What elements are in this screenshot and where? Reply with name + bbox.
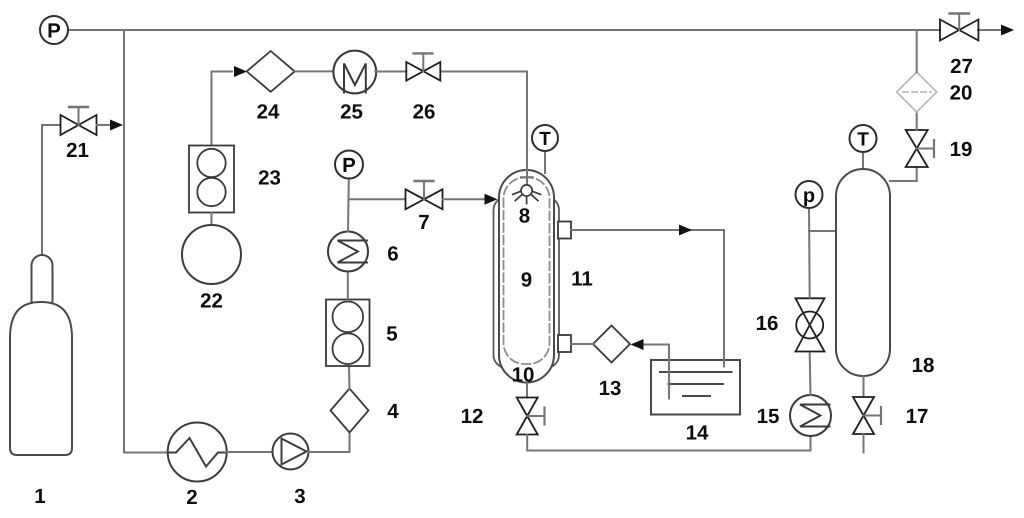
- wire meter 25 to valve 26: [375, 71, 406, 73]
- svg-text:7: 7: [418, 211, 429, 234]
- svg-text:T: T: [539, 129, 551, 150]
- filter 4 diamond: [331, 389, 369, 433]
- arrow into vessel 9: [485, 194, 498, 205]
- nozzle 8 flange tick: [521, 176, 533, 178]
- wire pump 3 to filter 4: [309, 433, 350, 453]
- svg-text:14: 14: [686, 422, 709, 445]
- svg-text:22: 22: [200, 290, 223, 313]
- node junction left (x=124): [123, 30, 125, 453]
- svg-text:20: 20: [950, 82, 973, 105]
- wire valve 26 down to nozzle 8: [441, 72, 527, 186]
- flow meter 25: [333, 51, 376, 94]
- valve 12: [517, 398, 545, 435]
- wire from valve 27 to outlet arrow: [978, 29, 1008, 31]
- wire valve 17 vent: [863, 434, 865, 453]
- svg-text:2: 2: [186, 486, 197, 509]
- gauge p3: [796, 181, 823, 208]
- valve 19: [906, 130, 934, 167]
- svg-text:15: 15: [757, 405, 780, 428]
- port 11 upper: [558, 222, 571, 239]
- wire valve 12 to heater 15 bottom line: [527, 435, 810, 451]
- vessel 9 jacket: [494, 197, 560, 368]
- valve 7: [406, 181, 443, 209]
- svg-text:24: 24: [257, 101, 280, 124]
- svg-text:4: 4: [387, 400, 399, 423]
- filter 20 (light): [897, 72, 937, 112]
- conditioner 23: [189, 146, 234, 213]
- wire filter 24 to meter 25: [295, 70, 333, 72]
- gas cylinder 1: [10, 255, 72, 455]
- svg-text:8: 8: [519, 205, 530, 228]
- valve 26: [406, 53, 440, 80]
- svg-text:1: 1: [34, 485, 45, 508]
- svg-text:10: 10: [512, 364, 535, 387]
- svg-text:11: 11: [571, 268, 593, 291]
- filter 24 diamond: [247, 51, 295, 92]
- wire bottom left to heat exchanger 2: [124, 452, 169, 454]
- wire valve 16 to gauge p3: [808, 208, 811, 298]
- svg-text:21: 21: [66, 139, 89, 162]
- valve 17: [853, 397, 881, 434]
- wire cylinder to valve 21: [42, 125, 61, 255]
- arrow on wire to tank: [679, 225, 692, 236]
- nozzle 8: [513, 185, 541, 204]
- svg-text:23: 23: [258, 167, 281, 190]
- port 11 lower: [558, 335, 571, 352]
- svg-text:25: 25: [340, 101, 363, 124]
- heat exchanger 2: [168, 423, 227, 482]
- svg-text:13: 13: [599, 377, 622, 400]
- wire junction to valve 7: [349, 198, 406, 200]
- svg-text:5: 5: [386, 323, 397, 346]
- wire vessel 18 to valve 19: [890, 167, 917, 181]
- svg-text:18: 18: [912, 354, 935, 377]
- svg-text:P: P: [342, 154, 356, 177]
- wire vessel 18 bottom to valve 17: [863, 376, 865, 397]
- wire conditioner 23 to balance 22: [211, 213, 213, 227]
- arrow into filter 13: [631, 339, 644, 350]
- svg-text:p: p: [803, 185, 815, 207]
- wire vessel 9 bottom to valve 12: [526, 383, 528, 398]
- svg-text:9: 9: [521, 269, 532, 292]
- outlet arrow: [1001, 25, 1014, 36]
- balance 22: [182, 225, 241, 284]
- wire valve 7 to vessel 9 with arrow: [443, 198, 486, 200]
- wire upper port to tank 14: [571, 230, 724, 367]
- svg-text:27: 27: [950, 55, 973, 78]
- svg-text:T: T: [857, 130, 869, 151]
- svg-text:16: 16: [756, 312, 779, 335]
- vessel 9 body: [499, 170, 554, 383]
- wire filter 20 to header: [916, 30, 918, 72]
- heater 6: [328, 232, 368, 272]
- wire tank 14 up and left to filter 13: [643, 345, 669, 399]
- svg-text:3: 3: [294, 485, 305, 508]
- filter 13 diamond: [593, 326, 630, 363]
- wire filter 23 branch up to filter 24: [212, 72, 233, 146]
- gauge P2: [335, 151, 363, 179]
- gauge T2: [850, 125, 877, 174]
- wire main top header line: [68, 29, 940, 31]
- arrow into filter 24: [234, 66, 247, 77]
- wire tank pipe segment inside: [723, 360, 725, 367]
- wire valve 21 to main drop with arrow: [97, 124, 112, 126]
- wire conditioner 5 to heater 6: [347, 272, 349, 300]
- svg-text:17: 17: [906, 405, 929, 428]
- arrow into node x=124: [110, 120, 123, 131]
- svg-text:19: 19: [950, 138, 973, 161]
- valve 27: [940, 14, 978, 41]
- svg-text:P: P: [47, 20, 61, 43]
- wire heater 6 to gauge P2 junction: [347, 179, 350, 232]
- wire hx2 to pump 3: [226, 451, 273, 453]
- wire valve 19 to filter 20: [916, 112, 918, 130]
- wire pipe into nozzle: [526, 170, 528, 185]
- svg-text:6: 6: [387, 243, 398, 266]
- gauge P1 top-left: [40, 16, 68, 44]
- svg-text:12: 12: [461, 405, 484, 428]
- pump 3: [273, 434, 309, 470]
- flow conditioner 5: [326, 300, 370, 367]
- svg-text:26: 26: [413, 101, 436, 124]
- liner 10 dashed: [504, 178, 550, 365]
- tank 14: [651, 360, 740, 415]
- wire heater 15 to valve 16: [809, 354, 812, 396]
- vessel 18: [836, 169, 890, 376]
- gauge T1 on vessel 9: [532, 125, 558, 173]
- wire filter 4 to conditioner 5: [348, 366, 351, 389]
- wire filter 13 to lower port: [571, 343, 593, 345]
- wire tap to vessel 18: [809, 230, 836, 232]
- heater 15: [790, 395, 831, 436]
- valve 16: [796, 298, 825, 351]
- valve 21: [61, 107, 97, 135]
